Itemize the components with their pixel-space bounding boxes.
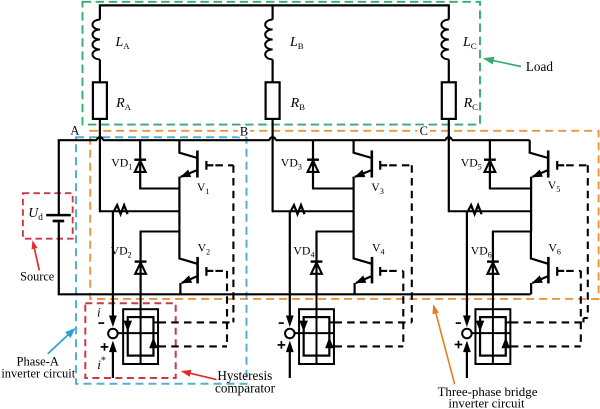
svg-text:A: A: [70, 123, 79, 137]
svg-text:C: C: [420, 124, 428, 138]
svg-text:Load: Load: [526, 59, 554, 74]
svg-text:i: i: [97, 304, 101, 319]
svg-text:comparator: comparator: [215, 380, 276, 395]
svg-text:inverter circuit: inverter circuit: [1, 367, 75, 381]
svg-text:inverter circuit: inverter circuit: [448, 397, 525, 409]
svg-text:Source: Source: [20, 269, 55, 283]
svg-text:B: B: [240, 125, 248, 139]
